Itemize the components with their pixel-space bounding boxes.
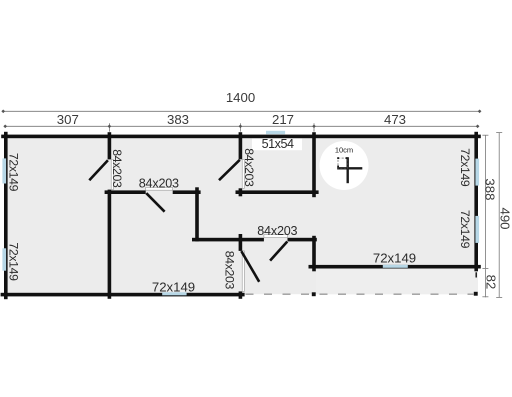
svg-text:72x149: 72x149 — [152, 280, 195, 295]
svg-text:72x149: 72x149 — [373, 251, 416, 266]
svg-text:473: 473 — [384, 112, 406, 127]
svg-text:72x149: 72x149 — [458, 148, 472, 187]
svg-text:388: 388 — [483, 178, 498, 200]
svg-text:84x203: 84x203 — [257, 224, 297, 238]
svg-text:383: 383 — [167, 112, 189, 127]
svg-text:490: 490 — [498, 207, 512, 229]
svg-text:84x203: 84x203 — [223, 251, 237, 290]
svg-text:10cm: 10cm — [335, 146, 353, 155]
svg-text:72x149: 72x149 — [7, 242, 21, 281]
svg-text:51x54: 51x54 — [262, 137, 294, 151]
svg-text:72x149: 72x149 — [7, 153, 21, 192]
svg-text:307: 307 — [57, 112, 79, 127]
svg-text:1400: 1400 — [226, 90, 255, 105]
svg-text:84x203: 84x203 — [139, 177, 179, 191]
svg-text:72x149: 72x149 — [458, 210, 472, 249]
svg-text:82: 82 — [483, 275, 498, 290]
svg-text:84x203: 84x203 — [242, 148, 256, 187]
svg-text:84x203: 84x203 — [110, 149, 124, 188]
svg-text:217: 217 — [272, 112, 294, 127]
